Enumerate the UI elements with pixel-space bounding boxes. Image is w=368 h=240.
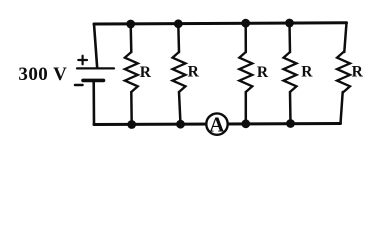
svg-text:R: R <box>188 64 200 81</box>
svg-text:R: R <box>140 64 152 81</box>
svg-text:R: R <box>301 64 313 81</box>
svg-text:R: R <box>352 64 364 81</box>
svg-text:R: R <box>257 64 269 81</box>
svg-text:300 V: 300 V <box>18 64 67 85</box>
svg-text:A: A <box>209 112 225 136</box>
